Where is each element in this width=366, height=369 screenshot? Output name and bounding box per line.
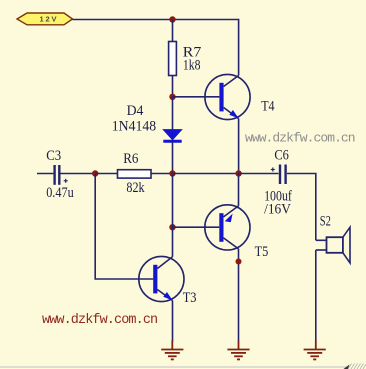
diode D4 [163,97,181,174]
node top junction [169,16,175,22]
capacitor C6 [271,165,286,185]
wire input left [37,173,53,175]
wire C3 node down to T3 base [95,174,153,280]
ground under speaker [304,341,326,360]
svg-text:www.dzkfw.com.cn: www.dzkfw.com.cn [42,313,157,328]
wire flag to top junction [73,19,173,21]
node on T5 collector [236,259,242,265]
resistor R7 [169,20,177,97]
wire C3 to node [61,173,96,175]
svg-text:82k: 82k [126,180,145,196]
svg-text:1k8: 1k8 [183,57,201,73]
wire T5 base [173,226,220,228]
svg-text:T5: T5 [255,244,269,260]
svg-text:D4: D4 [127,103,144,119]
svg-text:www.dzkfw.com.cn: www.dzkfw.com.cn [245,131,355,146]
node T5 base junction [169,224,175,230]
node D4/R6 junction on rail [169,170,175,176]
wire T4 emitter to main rail [238,119,240,174]
wire speaker bottom terminal to ground [315,250,317,341]
svg-text:T3: T3 [183,290,197,306]
wire T4 base [173,96,220,98]
wire T5 base junction down to T3 collector [172,227,174,257]
svg-text:S2: S2 [320,213,331,229]
power flag 12V [17,13,73,25]
wire C6 to speaker column [287,174,316,241]
ground under T5 [227,341,249,360]
ground under T3 [161,341,183,360]
svg-text:1N4148: 1N4148 [112,118,156,134]
wire T3 emitter to ground [172,301,174,342]
wire top junction to T4 collector corner [173,20,239,76]
sheet corner hatch [348,364,366,369]
node C3/R6/T3-base junction [92,170,98,176]
wire rail middle [173,173,239,175]
svg-text:T4: T4 [261,98,275,114]
svg-text:/16V: /16V [264,202,291,218]
capacitor C3 [55,165,68,185]
resistor R6 [95,170,172,178]
sheet corner tick [344,365,350,369]
sheet bottom edge line [0,366,347,368]
svg-text:C6: C6 [274,148,289,164]
svg-text:C3: C3 [46,148,61,164]
node rail/T4-emitter/T5-emitter junction [235,170,241,176]
svg-text:0.47u: 0.47u [46,185,74,201]
node R7/D4/T4-base junction [169,94,175,100]
svg-text:R6: R6 [123,151,139,167]
speaker S2 [316,227,350,263]
svg-text:12V: 12V [40,15,59,24]
transistor T3 [139,256,184,301]
wire rail to C6 [239,173,279,175]
wire T5 collector to ground [238,249,240,341]
wire diode column down to T5 base junction [172,174,174,228]
transistor T4 [205,74,250,119]
transistor T5 [205,174,250,250]
